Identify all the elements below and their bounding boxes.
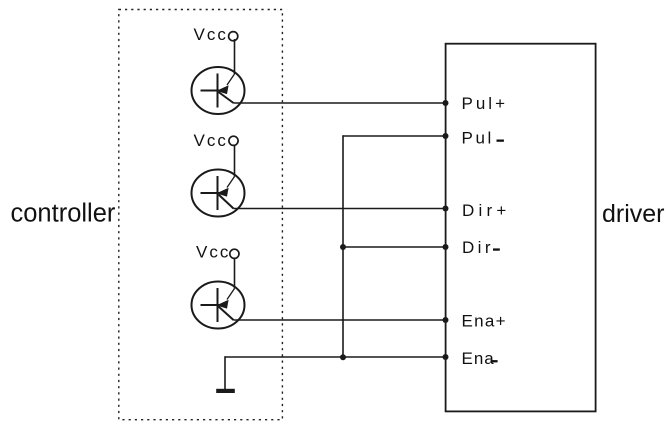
svg-text:Dir+: Dir+: [462, 201, 510, 220]
svg-text:Vcc: Vcc: [194, 25, 228, 44]
svg-text:Pul+: Pul+: [462, 94, 509, 113]
svg-text:driver: driver: [602, 200, 665, 228]
svg-text:Vcc: Vcc: [196, 243, 230, 262]
svg-text:Ena: Ena: [462, 349, 495, 368]
svg-text:Pul: Pul: [462, 129, 494, 148]
svg-text:controller: controller: [11, 200, 116, 228]
svg-text:Dir: Dir: [462, 238, 494, 257]
svg-text:Ena+: Ena+: [462, 312, 507, 331]
svg-text:Vcc: Vcc: [194, 131, 228, 150]
